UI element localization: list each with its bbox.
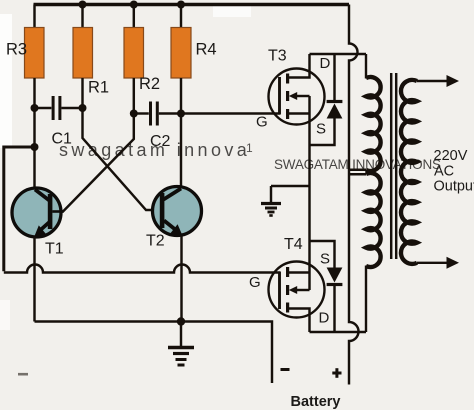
wire output bottom with arrow <box>417 257 459 269</box>
wire R1 bottom to C1 <box>81 78 83 108</box>
svg-text:Battery: Battery <box>291 394 341 410</box>
svg-text:R2: R2 <box>139 75 160 93</box>
svg-text:C1: C1 <box>52 131 73 148</box>
wire T3 gate line <box>181 112 280 114</box>
wire R3 top stub <box>33 5 35 28</box>
transformer primary upper half <box>365 54 367 79</box>
svg-text:D: D <box>320 55 331 72</box>
wire R2 top stub <box>133 6 135 28</box>
transistor T2 <box>146 187 202 250</box>
wire R3 bottom to T1 collector <box>33 78 35 189</box>
background artifact patches <box>0 14 12 148</box>
resistor R1 <box>73 28 109 97</box>
capacitor C2 <box>134 102 181 151</box>
battery plus symbol <box>332 368 341 378</box>
diode D3 body diode <box>310 54 343 145</box>
svg-text:T3: T3 <box>268 48 287 65</box>
node dot bus-R4 <box>177 1 185 9</box>
svg-text:220V: 220V <box>434 148 468 164</box>
node dot T1 collector tap <box>31 143 39 151</box>
resistor R3 <box>6 28 44 79</box>
mosfet T3 <box>256 48 331 138</box>
wire output top with arrow <box>417 75 459 87</box>
ground left <box>168 322 194 366</box>
battery minus symbol <box>281 368 290 371</box>
wire battery plus riser with hops <box>349 5 359 385</box>
wire T4 gate line with hops <box>4 265 280 273</box>
wire T2 emitter down <box>180 236 182 322</box>
svg-text:1: 1 <box>246 141 253 155</box>
wire cross-couple R1 node to T2 base <box>83 108 161 210</box>
resistor R2 <box>124 28 160 94</box>
svg-text:R1: R1 <box>88 79 109 97</box>
wire T3 drain to primary top <box>310 53 367 55</box>
svg-text:S: S <box>316 121 326 138</box>
diode D4 body diode <box>310 241 343 332</box>
ground right <box>261 186 310 216</box>
svg-text:S: S <box>320 251 330 268</box>
node dot emitter join <box>177 317 185 325</box>
node dot bus-R1 <box>79 1 87 9</box>
wire top supply bus <box>34 3 350 6</box>
svg-text:Output: Output <box>434 179 474 195</box>
resistor R4 <box>171 28 217 79</box>
wire cross-couple R2 node to T1 base <box>53 114 134 212</box>
svg-text:R4: R4 <box>196 41 217 59</box>
wire T3 source rail down to T4 source <box>308 114 310 273</box>
wire R4 node down to T2 collector <box>180 114 182 189</box>
svg-text:D: D <box>319 310 330 327</box>
wire R1 top stub <box>81 6 83 28</box>
svg-text:C2: C2 <box>150 133 171 150</box>
transformer core <box>391 73 396 259</box>
wire R2 bottom to C2 <box>133 78 135 114</box>
wire emitter join to battery minus <box>35 322 273 384</box>
node dot R2-C2 <box>130 110 138 118</box>
wire left feedback bus from T1 collector node <box>4 147 35 271</box>
mosfet T4 <box>249 236 330 332</box>
svg-text:T4: T4 <box>284 236 303 253</box>
label 220V AC Output <box>434 148 474 195</box>
transistor T1 <box>12 188 64 258</box>
svg-text:G: G <box>256 114 268 131</box>
node dot R4-C2 <box>177 110 185 118</box>
transformer primary lower half <box>349 173 366 176</box>
svg-text:G: G <box>249 274 261 291</box>
node dot bus-R2 <box>130 1 138 9</box>
node dot R3-C1 <box>31 104 39 112</box>
stray grey dash mark <box>18 373 28 376</box>
capacitor C1 <box>35 96 83 148</box>
svg-text:R3: R3 <box>6 41 27 59</box>
node dot R1-C1 <box>79 104 87 112</box>
svg-text:T2: T2 <box>146 233 165 250</box>
wire R4 bottom to C2 node <box>180 78 182 114</box>
wire T4 drain to primary bottom <box>310 331 367 333</box>
svg-text:T1: T1 <box>45 241 64 258</box>
wire R4 top stub <box>180 6 182 28</box>
watermark swagatam innova <box>59 140 253 160</box>
transformer secondary <box>401 80 417 264</box>
wire T1 emitter down <box>33 237 35 322</box>
svg-text:AC: AC <box>434 164 454 180</box>
